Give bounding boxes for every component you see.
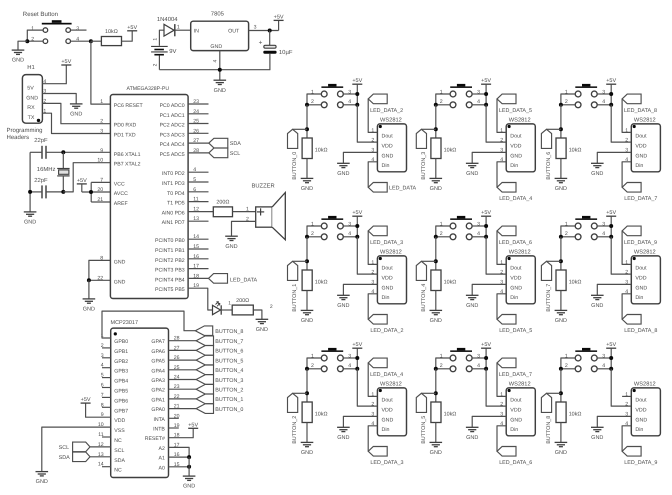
power +5V cell2 bbox=[352, 342, 362, 348]
wire Din down cell5 bbox=[497, 426, 506, 452]
wire +5V stem cell2 bbox=[356, 348, 358, 369]
wire flag to node cell1 bbox=[293, 260, 307, 262]
svg-text:2: 2 bbox=[440, 363, 443, 369]
wire SW pin1 cell2 bbox=[307, 358, 321, 369]
wire SW pin3 cell8 bbox=[597, 357, 611, 359]
pin names WS2812 cell5 bbox=[510, 398, 522, 433]
net flag BUTTON_4 cell4 bbox=[416, 261, 426, 280]
wire U2 pin 19 stub bbox=[169, 427, 179, 429]
svg-text:PCINT5 PB5: PCINT5 PB5 bbox=[155, 287, 185, 293]
push button SW cell3 bbox=[450, 84, 472, 108]
net flag LED_DATA_9 cell8 bbox=[622, 447, 641, 457]
wire U2 pin 20 stub bbox=[169, 417, 179, 419]
pin-1 marker WS2812 cell2 bbox=[379, 389, 382, 392]
svg-text:4: 4 bbox=[477, 231, 480, 237]
svg-text:GND: GND bbox=[466, 171, 478, 177]
net flag LED_DATA_3 cell2 bbox=[368, 447, 387, 457]
junction +5V pin4 cell7 bbox=[609, 235, 613, 239]
svg-text:GPA1: GPA1 bbox=[151, 397, 165, 403]
svg-text:BUTTON_2: BUTTON_2 bbox=[292, 416, 298, 444]
wire button node down cell4 bbox=[435, 237, 437, 270]
wire button node down cell7 bbox=[560, 237, 562, 270]
wire flag to node cell2 bbox=[293, 392, 307, 394]
wire Din down cell7 bbox=[622, 294, 631, 320]
svg-text:RESET#: RESET# bbox=[145, 436, 165, 442]
wire LED to resistor bbox=[222, 309, 232, 311]
wire 7805 GND down bbox=[219, 51, 221, 81]
wire +5V stem (7805) bbox=[278, 20, 280, 30]
ground (pull-down) cell2 bbox=[301, 442, 314, 456]
svg-text:GND: GND bbox=[430, 318, 442, 324]
junction +5V pin3 cell3 bbox=[484, 92, 488, 96]
svg-text:10kΩ: 10kΩ bbox=[444, 148, 457, 154]
pin numbers U1 left bbox=[97, 99, 103, 281]
svg-text:GND: GND bbox=[430, 186, 442, 192]
LED D2 (status) bbox=[213, 302, 222, 315]
svg-text:GND: GND bbox=[591, 303, 603, 309]
net flag SCL (U2) bbox=[73, 442, 90, 452]
svg-text:BUTTON_6: BUTTON_6 bbox=[215, 349, 243, 355]
pin numbers WS2812 cell1 bbox=[371, 260, 374, 295]
svg-text:Din: Din bbox=[382, 163, 390, 169]
svg-text:GND: GND bbox=[382, 417, 394, 423]
svg-text:GND: GND bbox=[382, 285, 394, 291]
svg-text:PC4 ADC4: PC4 ADC4 bbox=[160, 142, 185, 148]
svg-text:7: 7 bbox=[100, 177, 103, 183]
power +5V (U2 VDD) bbox=[81, 397, 91, 403]
net flag SCL (U1) bbox=[209, 148, 228, 158]
wire GND pin3 cell0 bbox=[343, 152, 377, 163]
wire pin27 to SDA flag bbox=[188, 142, 209, 144]
svg-text:+5V: +5V bbox=[77, 178, 87, 184]
wire crystal to XTAL2 node bbox=[62, 176, 64, 192]
wire U1 pin 5 stub bbox=[188, 181, 208, 183]
wire button node down cell5 bbox=[435, 369, 437, 402]
wire XTAL1 node down to crystal bbox=[62, 152, 64, 168]
svg-text:+5V: +5V bbox=[352, 78, 362, 84]
svg-text:GND: GND bbox=[635, 285, 647, 291]
svg-text:3: 3 bbox=[254, 24, 257, 30]
wire resistor to GND (LED) bbox=[253, 310, 262, 319]
wire SW pin4 cell1 bbox=[344, 236, 358, 238]
wire U2 pin 6 stub bbox=[102, 387, 111, 389]
svg-text:+5V: +5V bbox=[352, 342, 362, 348]
wire Dout up cell4 bbox=[497, 231, 506, 265]
svg-text:GPB7: GPB7 bbox=[114, 408, 128, 414]
svg-text:BUZZER: BUZZER bbox=[252, 184, 275, 190]
net flag LED_DATA_2 cell1 bbox=[368, 315, 387, 325]
wire SW pin1 cell8 bbox=[561, 358, 575, 369]
svg-text:LED_DATA_2: LED_DATA_2 bbox=[370, 328, 403, 334]
svg-text:Dout: Dout bbox=[510, 266, 522, 272]
wire +5V stem cell0 bbox=[356, 84, 358, 105]
svg-text:Dout: Dout bbox=[510, 134, 522, 140]
svg-text:1: 1 bbox=[228, 301, 231, 307]
svg-text:LED_DATA_5: LED_DATA_5 bbox=[499, 328, 532, 334]
svg-text:PCINT2 PB2: PCINT2 PB2 bbox=[155, 258, 185, 264]
wire SW pin4 cell5 bbox=[472, 368, 486, 370]
junction RESET node bbox=[89, 39, 93, 43]
junction SW left cell4 bbox=[434, 235, 438, 239]
wire +5V stem cell8 bbox=[610, 348, 612, 369]
svg-text:Dout: Dout bbox=[635, 134, 647, 140]
svg-text:VDD: VDD bbox=[382, 143, 393, 149]
wire SW pin2 cell3 bbox=[436, 104, 450, 106]
resistor 10kΩ pull-down cell1 bbox=[302, 270, 327, 291]
wire +5V stem cell3 bbox=[485, 84, 487, 105]
junction +5V pin4 cell0 bbox=[355, 103, 359, 107]
svg-text:4: 4 bbox=[212, 60, 218, 63]
wire resistor to GND cell0 bbox=[306, 159, 308, 179]
wire VDD to +5V cell5 bbox=[486, 369, 506, 406]
svg-text:WS2812: WS2812 bbox=[380, 249, 402, 255]
junction +5V pin3 cell7 bbox=[609, 224, 613, 228]
wire GPA4 to BUTTON_4 bbox=[169, 369, 197, 371]
svg-text:VDD: VDD bbox=[635, 275, 646, 281]
svg-text:16MHz: 16MHz bbox=[37, 166, 56, 173]
svg-text:LED_DATA_8: LED_DATA_8 bbox=[624, 328, 657, 334]
net flag SDA (U2) bbox=[73, 452, 90, 462]
junction XTAL1 node bbox=[61, 150, 65, 154]
wire U2 pin 14 stub bbox=[102, 466, 111, 468]
wire Din down cell2 bbox=[368, 426, 377, 452]
wire SW pin2 cell8 bbox=[561, 368, 575, 370]
svg-text:10kΩ: 10kΩ bbox=[315, 148, 328, 154]
svg-text:BUTTON_6: BUTTON_6 bbox=[546, 152, 552, 180]
svg-text:+5V: +5V bbox=[188, 422, 198, 428]
pin numbers WS2812 cell5 bbox=[500, 392, 503, 427]
junction XTAL2 node bbox=[61, 190, 65, 194]
junction A1 node bbox=[187, 455, 191, 459]
svg-text:GND: GND bbox=[12, 58, 24, 64]
pin labels SW 1/2/3/4 cell8 bbox=[565, 353, 605, 369]
svg-text:GPA2: GPA2 bbox=[151, 388, 165, 394]
pin-1 marker WS2812 cell4 bbox=[508, 257, 511, 260]
svg-text:BUTTON_7: BUTTON_7 bbox=[546, 284, 552, 312]
push button SW cell7 bbox=[575, 216, 597, 240]
wire button node down cell0 bbox=[306, 105, 308, 138]
wire cap to ground rail bbox=[159, 54, 270, 70]
svg-text:NC: NC bbox=[114, 468, 122, 474]
svg-text:10kΩ: 10kΩ bbox=[315, 280, 328, 286]
svg-text:INT0 PD2: INT0 PD2 bbox=[162, 171, 185, 177]
svg-text:Dout: Dout bbox=[382, 398, 394, 404]
svg-text:1N4004: 1N4004 bbox=[157, 16, 178, 23]
wire U2 pin 11 stub bbox=[102, 436, 111, 438]
wire SW pin2 cell0 bbox=[307, 104, 321, 106]
svg-text:GND: GND bbox=[635, 417, 647, 423]
wire XTAL2 node to ATmega pin10 bbox=[63, 163, 110, 192]
wire SW pin3 cell7 bbox=[597, 225, 611, 227]
svg-text:LED_DATA: LED_DATA bbox=[389, 186, 416, 192]
wire U1 pin 17 stub bbox=[188, 268, 208, 270]
wire SW_RESET pin3 stub bbox=[71, 29, 87, 31]
junction SW left cell1 bbox=[305, 235, 309, 239]
pin names 7805 IN/OUT/GND bbox=[194, 29, 240, 51]
power +5V cell0 bbox=[352, 78, 362, 84]
svg-text:GND: GND bbox=[83, 307, 95, 313]
svg-text:LED_DATA_9: LED_DATA_9 bbox=[624, 460, 657, 466]
svg-text:GND: GND bbox=[256, 327, 268, 333]
wire U2 pin 5 stub bbox=[102, 377, 111, 379]
wire SW pin4 cell6 bbox=[597, 104, 611, 106]
svg-text:10kΩ: 10kΩ bbox=[569, 280, 582, 286]
op-amp-style IC U1 ATMEGA328P-PU box bbox=[110, 95, 188, 299]
push button SW cell8 bbox=[575, 348, 597, 372]
svg-text:BUTTON_5: BUTTON_5 bbox=[215, 358, 243, 364]
net flag LED_DATA_5 cell4 bbox=[497, 315, 516, 325]
wire button node down cell3 bbox=[435, 105, 437, 138]
svg-text:GND: GND bbox=[635, 153, 647, 159]
svg-text:Din: Din bbox=[635, 163, 643, 169]
svg-text:SDA: SDA bbox=[114, 458, 125, 464]
svg-text:BUTTON_5: BUTTON_5 bbox=[421, 416, 427, 444]
pin numbers WS2812 cell7 bbox=[625, 260, 628, 295]
svg-text:1: 1 bbox=[100, 99, 103, 105]
push button SW cell0 bbox=[321, 84, 343, 108]
svg-text:Din: Din bbox=[635, 295, 643, 301]
svg-text:WS2812: WS2812 bbox=[509, 249, 531, 255]
wire A0 pin15 bbox=[169, 466, 190, 468]
net flag LED_DATA_2 cell0 bbox=[368, 94, 387, 104]
ground (pull-down) cell0 bbox=[301, 178, 314, 192]
svg-text:GND: GND bbox=[301, 318, 313, 324]
net flag LED_DATA_9 cell7 bbox=[622, 226, 641, 236]
wire SW pin4 cell4 bbox=[472, 236, 486, 238]
junction +5V pin4 cell2 bbox=[355, 367, 359, 371]
svg-text:+5V: +5V bbox=[481, 342, 491, 348]
svg-text:GND: GND bbox=[382, 153, 394, 159]
svg-text:LED_DATA_3: LED_DATA_3 bbox=[370, 240, 403, 246]
wire pin19 to LED bbox=[188, 288, 212, 310]
svg-text:LED_DATA_7: LED_DATA_7 bbox=[624, 196, 657, 202]
svg-text:+5V: +5V bbox=[481, 78, 491, 84]
pin names WS2812 cell3 bbox=[510, 134, 522, 169]
net flag LED_DATA_7 cell6 bbox=[622, 183, 641, 193]
svg-text:LED_DATA_7: LED_DATA_7 bbox=[499, 372, 532, 378]
svg-text:GPA4: GPA4 bbox=[151, 368, 165, 374]
pin labels SW 1/2/3/4 cell3 bbox=[440, 89, 480, 105]
pin names U2 right bbox=[145, 339, 166, 471]
wire SW pin1 cell3 bbox=[436, 94, 450, 105]
pin labels SW 1/2/3/4 cell2 bbox=[311, 353, 351, 369]
net flag BUTTON_1 cell1 bbox=[288, 261, 298, 280]
svg-text:PC2 ADC2: PC2 ADC2 bbox=[160, 123, 185, 129]
junction +5V pin3 cell6 bbox=[609, 92, 613, 96]
wire H1 GND bbox=[42, 94, 76, 104]
wire GND pin3 cell7 bbox=[597, 284, 631, 295]
svg-text:GPA7: GPA7 bbox=[151, 339, 165, 345]
svg-text:GPB5: GPB5 bbox=[114, 389, 128, 395]
ground (buzzer) bbox=[225, 236, 238, 250]
wire SW pin2 cell6 bbox=[561, 104, 575, 106]
svg-text:GND: GND bbox=[555, 450, 567, 456]
svg-text:GND: GND bbox=[36, 479, 48, 485]
svg-text:Din: Din bbox=[382, 295, 390, 301]
ground (WS2812) cell6 bbox=[591, 163, 604, 177]
wire SW pin1 cell1 bbox=[307, 226, 321, 237]
IC WS2812 box cell0 bbox=[377, 124, 406, 172]
svg-text:WS2812: WS2812 bbox=[509, 381, 531, 387]
wire Dout up cell0 bbox=[368, 99, 377, 132]
svg-text:PCINT0 PB0: PCINT0 PB0 bbox=[155, 238, 185, 244]
wire +5V stem to AVCC node bbox=[81, 184, 83, 192]
wire VDD to +5V cell4 bbox=[486, 237, 506, 274]
svg-text:4: 4 bbox=[348, 363, 351, 369]
junction SW left cell2 bbox=[305, 367, 309, 371]
svg-text:3: 3 bbox=[100, 129, 103, 135]
svg-text:Programming: Programming bbox=[7, 127, 43, 134]
svg-text:10kΩ: 10kΩ bbox=[444, 412, 457, 418]
pin-1 marker WS2812 cell5 bbox=[508, 389, 511, 392]
wire SW pin2 cell5 bbox=[436, 368, 450, 370]
net flag SDA (U1) bbox=[209, 138, 228, 148]
wire SW pin2 cell4 bbox=[436, 236, 450, 238]
svg-text:2: 2 bbox=[100, 119, 103, 125]
wire C2 right to XTAL1 node bbox=[46, 151, 110, 153]
svg-text:PD1 TXD: PD1 TXD bbox=[114, 133, 136, 139]
wire button node down cell1 bbox=[306, 237, 308, 270]
IC WS2812 box cell6 bbox=[631, 124, 660, 172]
wire +5V to RESET# bbox=[169, 428, 194, 437]
junction button/flag/resistor cell5 bbox=[434, 391, 438, 395]
buzzer LS1 bbox=[256, 193, 286, 240]
net flag BUTTON_2 cell2 bbox=[288, 393, 298, 412]
wire button node down cell6 bbox=[560, 105, 562, 138]
junction +5V pin4 cell8 bbox=[609, 367, 613, 371]
wire button node down cell8 bbox=[560, 369, 562, 402]
svg-text:T1 PD5: T1 PD5 bbox=[167, 201, 185, 207]
svg-text:VCC: VCC bbox=[114, 181, 125, 187]
wire Dout up cell1 bbox=[368, 231, 377, 265]
svg-text:10kΩ: 10kΩ bbox=[105, 29, 118, 35]
pin labels SW 1/2/3/4 cell1 bbox=[311, 221, 351, 237]
svg-text:A2: A2 bbox=[159, 446, 165, 452]
pin labels H1 4/3/2/1 bbox=[43, 79, 46, 115]
pin numbers WS2812 cell6 bbox=[625, 128, 628, 163]
net flag BUTTON_8 (U2) bbox=[195, 326, 212, 336]
net flag BUTTON_5 (U2) bbox=[196, 355, 213, 365]
resistor 10kΩ pull-down cell0 bbox=[302, 138, 327, 159]
net flag BUTTON_1 (U2) bbox=[196, 394, 213, 404]
net flag LED_DATA_8 cell6 bbox=[622, 94, 641, 104]
wire Dout up cell3 bbox=[497, 99, 506, 132]
svg-text:GPB2: GPB2 bbox=[114, 359, 128, 365]
wire A-pins down bbox=[188, 457, 190, 476]
pin numbers U1 right bbox=[193, 99, 199, 289]
wire pin18 to LED_DATA flag bbox=[188, 277, 208, 279]
svg-text:AIN0 PD6: AIN0 PD6 bbox=[162, 211, 185, 217]
svg-text:BUTTON_7: BUTTON_7 bbox=[215, 339, 243, 345]
junction A0 node bbox=[187, 465, 191, 469]
pin labels SW 1/2/3/4 cell7 bbox=[565, 221, 605, 237]
ground (pull-down) cell7 bbox=[555, 310, 568, 324]
push button SW cell6 bbox=[575, 84, 597, 108]
svg-text:GND: GND bbox=[70, 112, 82, 118]
svg-text:OUT: OUT bbox=[228, 29, 240, 35]
wire flag to node cell7 bbox=[547, 260, 561, 262]
wire AVCC pin20 bbox=[82, 191, 111, 193]
pin-1 marker H1 bbox=[37, 119, 40, 122]
svg-text:4: 4 bbox=[348, 99, 351, 105]
svg-text:8: 8 bbox=[100, 255, 103, 261]
wire U2 pin 2 stub bbox=[102, 347, 111, 349]
ground (WS2812) cell8 bbox=[591, 427, 604, 441]
wire SW pin3 cell1 bbox=[344, 225, 358, 227]
net flag BUTTON_4 (U2) bbox=[196, 365, 213, 375]
svg-text:INT1 PD3: INT1 PD3 bbox=[162, 181, 185, 187]
svg-text:LED_DATA_4: LED_DATA_4 bbox=[370, 372, 403, 378]
svg-text:2: 2 bbox=[311, 363, 314, 369]
svg-text:200Ω: 200Ω bbox=[216, 200, 229, 206]
svg-text:LED_DATA_6: LED_DATA_6 bbox=[499, 240, 532, 246]
ground (ATmega) bbox=[83, 299, 96, 313]
svg-text:Dout: Dout bbox=[382, 134, 394, 140]
svg-text:4: 4 bbox=[477, 99, 480, 105]
svg-text:GND: GND bbox=[591, 171, 603, 177]
ground (pull-down) cell8 bbox=[555, 442, 568, 456]
pin names WS2812 cell4 bbox=[510, 266, 522, 301]
svg-text:Din: Din bbox=[510, 163, 518, 169]
net flag BUTTON_8 cell8 bbox=[541, 393, 551, 412]
wire U2 pin 4 stub bbox=[102, 367, 111, 369]
junction +5V pin4 cell6 bbox=[609, 103, 613, 107]
svg-text:PCINT4 PB4: PCINT4 PB4 bbox=[155, 277, 185, 283]
pin names WS2812 cell8 bbox=[635, 398, 647, 433]
svg-text:MCP23017: MCP23017 bbox=[111, 320, 139, 326]
svg-text:4: 4 bbox=[477, 363, 480, 369]
svg-text:Dout: Dout bbox=[510, 398, 522, 404]
junction ground rail bbox=[218, 68, 222, 72]
junction +5V pin4 cell5 bbox=[484, 367, 488, 371]
wire U2 pin 8 stub bbox=[102, 406, 111, 408]
resistor 200Ω (buzzer) bbox=[213, 200, 232, 217]
junction button/flag/resistor cell6 bbox=[559, 127, 563, 131]
ground (power supply) bbox=[214, 80, 227, 94]
svg-text:SCL: SCL bbox=[114, 448, 124, 454]
junction button/flag/resistor cell4 bbox=[434, 259, 438, 263]
wire H1 TX to ATmega PD1 bbox=[42, 113, 110, 133]
wire Dout up cell5 bbox=[497, 363, 506, 397]
wire junction down to cap bbox=[269, 31, 271, 46]
net flag BUTTON_2 (U2) bbox=[196, 384, 213, 394]
wire U1 pin 11 stub bbox=[188, 201, 208, 203]
svg-text:+5V: +5V bbox=[81, 397, 91, 403]
IC WS2812 box cell5 bbox=[506, 388, 535, 436]
svg-text:2: 2 bbox=[440, 231, 443, 237]
svg-text:2: 2 bbox=[311, 99, 314, 105]
wire caps left rail bbox=[29, 152, 31, 212]
pin names U1 left bbox=[114, 103, 144, 285]
svg-text:GPB0: GPB0 bbox=[114, 339, 128, 345]
svg-text:GND: GND bbox=[114, 259, 126, 265]
ground (U2 address pins) bbox=[183, 476, 196, 490]
junction SW left cell5 bbox=[434, 367, 438, 371]
wire GND pin3 cell8 bbox=[597, 416, 631, 427]
wire SW pin1 cell0 bbox=[307, 94, 321, 105]
svg-text:BUTTON_8: BUTTON_8 bbox=[546, 416, 552, 444]
svg-text:VDD: VDD bbox=[635, 143, 646, 149]
svg-text:GPB4: GPB4 bbox=[114, 379, 128, 385]
svg-text:SDA: SDA bbox=[59, 455, 70, 461]
svg-text:200Ω: 200Ω bbox=[236, 298, 249, 304]
junction +5V pin4 cell1 bbox=[355, 235, 359, 239]
svg-text:LED_DATA_5: LED_DATA_5 bbox=[499, 108, 532, 114]
wire +5V stem cell1 bbox=[356, 216, 358, 237]
wire Din down cell8 bbox=[622, 426, 631, 452]
pin-1 marker WS2812 cell8 bbox=[633, 389, 636, 392]
wire SW pin1 cell4 bbox=[436, 226, 450, 237]
